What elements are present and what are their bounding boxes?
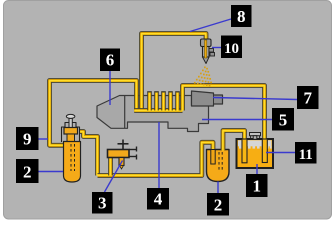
tank right tube (262, 139, 267, 163)
label 3 (92, 192, 113, 214)
pipe: filter outlet to suction line (78, 132, 98, 176)
label 6 (100, 49, 120, 72)
leader 10 (212, 47, 221, 49)
svg-text:7: 7 (303, 89, 312, 108)
label 2 left (16, 159, 39, 183)
fuel filter: primer handle (66, 114, 75, 127)
leader 2 right (217, 182, 219, 194)
tank air band (238, 140, 272, 146)
label 2 right (207, 193, 229, 216)
fuel tank body (237, 139, 274, 168)
label 10 (221, 36, 242, 59)
leader 6 (109, 71, 111, 105)
fuel injection nozzle (201, 39, 215, 64)
label 11 (295, 142, 317, 164)
svg-text:9: 9 (23, 130, 32, 149)
svg-text:10: 10 (224, 41, 239, 57)
injector spray (194, 67, 212, 87)
pipe: transfer pump drop (108, 158, 113, 176)
fuel filter: head neck (67, 134, 75, 142)
label 1 (246, 174, 268, 197)
transfer pump (priming pump) (108, 140, 137, 170)
svg-text:1: 1 (252, 177, 261, 196)
leader 4 (158, 122, 160, 188)
separator internal tube + element dashes (211, 150, 215, 165)
blue leader lines (38, 19, 297, 193)
fuel filter: canister (64, 142, 81, 183)
leader 8 (190, 19, 231, 32)
leader 5 (202, 119, 272, 121)
svg-text:2: 2 (214, 196, 223, 215)
leader 9 (38, 138, 48, 140)
svg-text:11: 11 (299, 147, 313, 163)
label 8 (231, 5, 252, 27)
leader 7 (213, 98, 297, 100)
injection pump body (engine) (97, 96, 209, 132)
governor U1 (192, 91, 223, 106)
label 7 (297, 86, 319, 109)
pipe: gallery riser + return to tank (183, 86, 265, 162)
fuel filter: element dashes (71, 144, 75, 171)
label 4 (147, 188, 169, 210)
pipe: tank standpipe to separator (223, 131, 245, 163)
leader 11 (266, 152, 295, 154)
injection line teeth (147, 92, 180, 111)
label 9 (16, 127, 39, 150)
separator vessel body (behind pipes) (207, 150, 230, 182)
leader 3 (105, 161, 123, 193)
fuel filter: head bracket (62, 123, 80, 143)
leader 1 (256, 164, 258, 174)
fuel filter: head pump block (64, 128, 78, 135)
tank filler cap (250, 133, 261, 140)
svg-text:4: 4 (154, 190, 163, 209)
tank left tube (242, 139, 247, 163)
pipe: return rectangle to injector (142, 34, 207, 111)
pipe: filter supply line (tank-left loop) (50, 81, 137, 146)
label 5 (272, 108, 294, 131)
svg-text:8: 8 (237, 7, 246, 26)
pipe: suction line separator-to-pump (98, 142, 214, 175)
svg-text:2: 2 (23, 163, 32, 182)
svg-text:6: 6 (106, 51, 115, 70)
pipe: pump gallery rail (134, 108, 182, 113)
leader 2 left (38, 171, 63, 173)
svg-text:5: 5 (279, 111, 288, 130)
svg-text:3: 3 (98, 194, 107, 213)
